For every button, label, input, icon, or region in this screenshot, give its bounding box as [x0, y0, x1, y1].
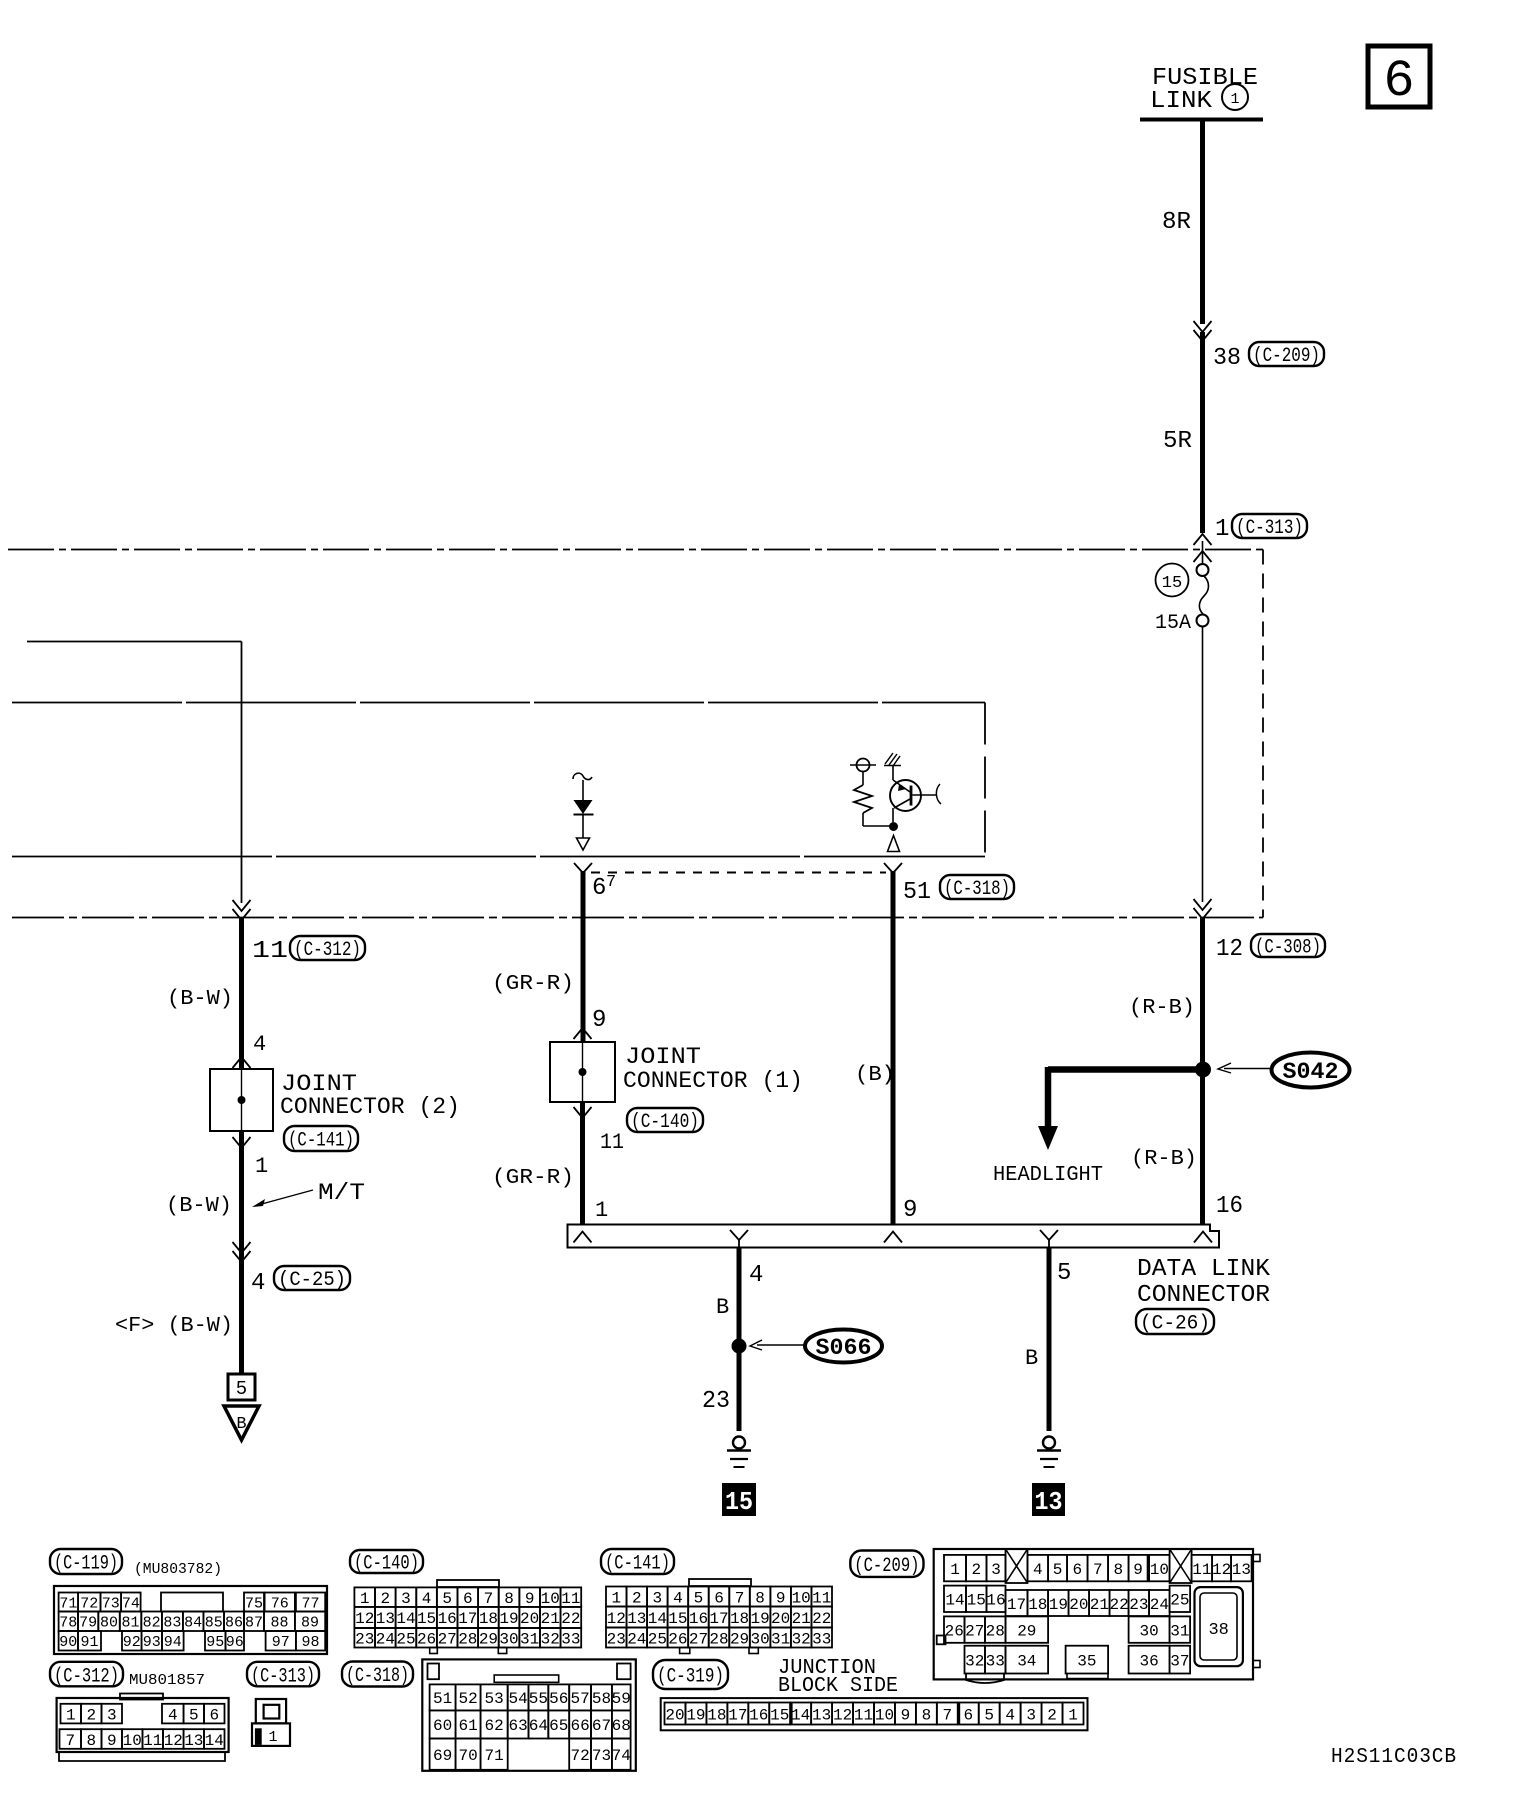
svg-text:25: 25 — [648, 1630, 667, 1648]
svg-text:6: 6 — [463, 1590, 473, 1608]
svg-text:87: 87 — [245, 1615, 263, 1632]
svg-text:5: 5 — [694, 1589, 704, 1607]
svg-text:80: 80 — [100, 1615, 118, 1632]
svg-text:76: 76 — [271, 1595, 289, 1612]
svg-text:13: 13 — [1232, 1561, 1251, 1579]
svg-text:17: 17 — [709, 1610, 728, 1628]
svg-text:3: 3 — [107, 1706, 117, 1724]
svg-text:18: 18 — [707, 1706, 726, 1724]
svg-text:12: 12 — [164, 1732, 183, 1750]
svg-text:68: 68 — [612, 1717, 631, 1735]
svg-text:13: 13 — [376, 1610, 395, 1628]
svg-text:6: 6 — [1383, 52, 1414, 111]
svg-text:21: 21 — [792, 1610, 811, 1628]
svg-text:4: 4 — [251, 1270, 265, 1297]
svg-text:(C-140): (C-140) — [631, 1111, 699, 1134]
svg-text:30: 30 — [499, 1631, 518, 1649]
svg-text:15: 15 — [668, 1610, 687, 1628]
svg-text:13: 13 — [1035, 1487, 1063, 1517]
svg-text:22: 22 — [1109, 1596, 1128, 1614]
svg-text:17: 17 — [1007, 1596, 1026, 1614]
svg-text:2: 2 — [381, 1590, 391, 1608]
svg-text:(C-25): (C-25) — [278, 1269, 346, 1292]
svg-text:5: 5 — [984, 1706, 994, 1724]
svg-text:75: 75 — [245, 1595, 263, 1612]
svg-text:(GR-R): (GR-R) — [492, 1167, 574, 1190]
svg-text:3: 3 — [991, 1561, 1001, 1579]
svg-text:1: 1 — [1068, 1706, 1078, 1724]
svg-text:S042: S042 — [1283, 1059, 1339, 1085]
svg-text:24: 24 — [376, 1631, 395, 1649]
svg-text:8: 8 — [755, 1589, 765, 1607]
svg-text:32: 32 — [965, 1652, 984, 1670]
svg-text:28: 28 — [709, 1630, 728, 1648]
svg-text:59: 59 — [612, 1690, 631, 1708]
svg-text:58: 58 — [592, 1690, 611, 1708]
svg-text:16: 16 — [749, 1706, 768, 1724]
svg-text:32: 32 — [541, 1631, 560, 1649]
svg-text:69: 69 — [433, 1747, 452, 1765]
svg-text:7: 7 — [735, 1589, 745, 1607]
svg-text:83: 83 — [163, 1615, 181, 1632]
svg-text:34: 34 — [1017, 1652, 1036, 1670]
svg-text:5: 5 — [1057, 1260, 1071, 1287]
svg-text:6: 6 — [1073, 1561, 1083, 1579]
svg-text:15A: 15A — [1155, 612, 1191, 635]
svg-text:73: 73 — [102, 1595, 120, 1612]
svg-text:5: 5 — [236, 1378, 247, 1400]
svg-text:63: 63 — [508, 1717, 527, 1735]
svg-text:10: 10 — [123, 1732, 142, 1750]
svg-text:12: 12 — [833, 1706, 852, 1724]
svg-text:17: 17 — [728, 1706, 747, 1724]
svg-text:26: 26 — [668, 1630, 687, 1648]
svg-text:2: 2 — [86, 1706, 96, 1724]
svg-text:MU801857: MU801857 — [129, 1672, 205, 1689]
svg-text:28: 28 — [986, 1622, 1005, 1640]
svg-text:22: 22 — [561, 1610, 580, 1628]
svg-text:9: 9 — [107, 1732, 117, 1750]
svg-text:71: 71 — [485, 1747, 504, 1765]
svg-text:20: 20 — [1069, 1596, 1088, 1614]
svg-text:8: 8 — [504, 1590, 514, 1608]
svg-text:94: 94 — [164, 1634, 182, 1651]
svg-text:9: 9 — [592, 1007, 606, 1034]
svg-text:24: 24 — [1150, 1596, 1169, 1614]
svg-text:70: 70 — [458, 1747, 477, 1765]
svg-text:(C-308): (C-308) — [1255, 937, 1321, 960]
svg-text:67: 67 — [592, 1717, 611, 1735]
svg-text:S066: S066 — [816, 1335, 872, 1361]
svg-text:BLOCK SIDE: BLOCK SIDE — [778, 1675, 898, 1698]
svg-text:B: B — [716, 1295, 729, 1320]
svg-text:(GR-R): (GR-R) — [492, 973, 574, 996]
svg-text:52: 52 — [458, 1690, 477, 1708]
svg-text:21: 21 — [1090, 1596, 1109, 1614]
svg-text:2: 2 — [1047, 1706, 1057, 1724]
svg-text:9: 9 — [776, 1589, 786, 1607]
svg-text:(B-W): (B-W) — [166, 1195, 232, 1218]
svg-text:20: 20 — [520, 1610, 539, 1628]
svg-text:(C-119): (C-119) — [54, 1553, 118, 1576]
svg-text:19: 19 — [686, 1706, 705, 1724]
svg-text:30: 30 — [750, 1630, 769, 1648]
svg-text:1: 1 — [950, 1561, 960, 1579]
svg-text:(C-318): (C-318) — [944, 878, 1010, 901]
svg-text:1: 1 — [360, 1590, 370, 1608]
svg-text:(C-318): (C-318) — [346, 1665, 409, 1688]
svg-text:CONNECTOR: CONNECTOR — [1137, 1282, 1270, 1309]
svg-text:B: B — [1025, 1346, 1038, 1371]
svg-text:(C-313): (C-313) — [251, 1665, 315, 1688]
svg-text:7: 7 — [484, 1590, 494, 1608]
svg-text:93: 93 — [143, 1634, 161, 1651]
svg-text:16: 16 — [986, 1592, 1005, 1610]
svg-text:17: 17 — [458, 1610, 477, 1628]
svg-text:(C-141): (C-141) — [605, 1553, 670, 1576]
svg-text:19: 19 — [750, 1610, 769, 1628]
svg-text:88: 88 — [270, 1615, 288, 1632]
svg-text:6: 6 — [963, 1706, 973, 1724]
svg-text:72: 72 — [570, 1747, 589, 1765]
svg-text:5: 5 — [189, 1706, 199, 1724]
svg-text:H2S11C03CB: H2S11C03CB — [1331, 1746, 1457, 1769]
svg-text:12: 12 — [1216, 936, 1243, 963]
svg-text:22: 22 — [812, 1610, 831, 1628]
svg-text:(B-W): (B-W) — [167, 988, 233, 1011]
svg-text:11: 11 — [812, 1589, 831, 1607]
svg-text:64: 64 — [529, 1717, 548, 1735]
svg-text:3: 3 — [653, 1589, 663, 1607]
svg-text:23: 23 — [1129, 1596, 1148, 1614]
svg-text:57: 57 — [570, 1690, 589, 1708]
svg-text:95: 95 — [206, 1634, 224, 1651]
svg-text:9: 9 — [1133, 1561, 1143, 1579]
svg-text:38: 38 — [1213, 345, 1241, 372]
svg-text:36: 36 — [1139, 1652, 1158, 1670]
svg-text:19: 19 — [1049, 1596, 1068, 1614]
svg-text:26: 26 — [417, 1631, 436, 1649]
svg-text:51: 51 — [433, 1690, 452, 1708]
svg-text:25: 25 — [1170, 1592, 1189, 1610]
svg-text:18: 18 — [730, 1610, 749, 1628]
svg-text:18: 18 — [1028, 1596, 1047, 1614]
svg-text:7: 7 — [1093, 1561, 1103, 1579]
svg-text:4: 4 — [1005, 1706, 1015, 1724]
svg-text:82: 82 — [143, 1615, 161, 1632]
svg-text:6: 6 — [592, 875, 606, 902]
svg-text:12: 12 — [607, 1610, 626, 1628]
svg-text:3: 3 — [1026, 1706, 1036, 1724]
svg-text:3: 3 — [401, 1590, 411, 1608]
svg-text:29: 29 — [730, 1630, 749, 1648]
svg-text:13: 13 — [184, 1732, 203, 1750]
svg-text:(MU803782): (MU803782) — [134, 1561, 222, 1578]
svg-text:<F> (B-W): <F> (B-W) — [115, 1315, 233, 1338]
svg-text:10: 10 — [541, 1590, 560, 1608]
svg-text:16: 16 — [1216, 1193, 1243, 1220]
svg-text:(C-313): (C-313) — [1236, 517, 1303, 540]
svg-text:55: 55 — [529, 1690, 548, 1708]
svg-text:24: 24 — [627, 1630, 646, 1648]
svg-text:11: 11 — [1192, 1561, 1211, 1579]
svg-text:11: 11 — [143, 1732, 162, 1750]
svg-text:16: 16 — [438, 1610, 457, 1628]
svg-text:(C-319): (C-319) — [657, 1666, 724, 1689]
svg-text:29: 29 — [1017, 1622, 1036, 1640]
svg-text:31: 31 — [520, 1631, 539, 1649]
svg-text:27: 27 — [965, 1622, 984, 1640]
svg-text:1: 1 — [66, 1706, 76, 1724]
svg-text:27: 27 — [438, 1631, 457, 1649]
svg-text:20: 20 — [665, 1706, 684, 1724]
svg-text:15: 15 — [725, 1487, 753, 1517]
svg-text:4: 4 — [1033, 1561, 1043, 1579]
svg-text:20: 20 — [771, 1610, 790, 1628]
svg-text:DATA LINK: DATA LINK — [1137, 1256, 1271, 1283]
svg-text:91: 91 — [80, 1634, 98, 1651]
svg-text:(C-209): (C-209) — [854, 1555, 919, 1578]
svg-text:5: 5 — [1053, 1561, 1063, 1579]
svg-text:73: 73 — [592, 1747, 611, 1765]
svg-text:8: 8 — [922, 1706, 932, 1724]
svg-text:15: 15 — [770, 1706, 789, 1724]
svg-text:71: 71 — [59, 1595, 77, 1612]
svg-text:14: 14 — [396, 1610, 415, 1628]
svg-text:12: 12 — [355, 1610, 374, 1628]
svg-text:85: 85 — [205, 1615, 223, 1632]
svg-text:38: 38 — [1208, 1621, 1228, 1640]
svg-text:10: 10 — [1150, 1561, 1169, 1579]
svg-text:30: 30 — [1139, 1622, 1158, 1640]
svg-text:(C-209): (C-209) — [1253, 345, 1320, 368]
svg-text:4: 4 — [253, 1032, 266, 1057]
svg-text:23: 23 — [355, 1631, 374, 1649]
svg-text:53: 53 — [485, 1690, 504, 1708]
svg-text:JOINT: JOINT — [625, 1044, 701, 1070]
svg-text:9: 9 — [901, 1706, 911, 1724]
svg-text:32: 32 — [792, 1630, 811, 1648]
svg-text:(C-140): (C-140) — [354, 1553, 419, 1576]
svg-text:89: 89 — [301, 1615, 319, 1632]
svg-text:7: 7 — [606, 873, 616, 892]
svg-text:14: 14 — [945, 1592, 964, 1610]
svg-text:18: 18 — [479, 1610, 498, 1628]
svg-text:7: 7 — [65, 1732, 75, 1750]
svg-text:15: 15 — [967, 1592, 986, 1610]
svg-text:62: 62 — [485, 1717, 504, 1735]
svg-text:13: 13 — [812, 1706, 831, 1724]
svg-text:4: 4 — [168, 1706, 178, 1724]
svg-text:10: 10 — [792, 1589, 811, 1607]
svg-text:1: 1 — [595, 1198, 608, 1223]
svg-text:79: 79 — [79, 1615, 97, 1632]
svg-text:(B): (B) — [855, 1064, 895, 1087]
svg-text:6: 6 — [714, 1589, 724, 1607]
svg-text:(R-B): (R-B) — [1129, 997, 1195, 1020]
svg-text:10: 10 — [875, 1706, 894, 1724]
svg-text:33: 33 — [986, 1652, 1005, 1670]
svg-text:23: 23 — [607, 1630, 626, 1648]
svg-text:92: 92 — [123, 1634, 141, 1651]
svg-text:66: 66 — [570, 1717, 589, 1735]
svg-text:(R-B): (R-B) — [1131, 1148, 1197, 1171]
svg-text:CONNECTOR (2): CONNECTOR (2) — [280, 1094, 460, 1120]
svg-text:1: 1 — [255, 1154, 268, 1179]
svg-text:(C-26): (C-26) — [1140, 1313, 1210, 1336]
svg-text:28: 28 — [458, 1631, 477, 1649]
svg-text:4: 4 — [673, 1589, 683, 1607]
svg-text:9: 9 — [525, 1590, 535, 1608]
svg-text:1: 1 — [1215, 516, 1229, 543]
svg-text:1: 1 — [1230, 91, 1239, 108]
svg-text:54: 54 — [508, 1690, 527, 1708]
svg-text:33: 33 — [561, 1631, 580, 1649]
svg-text:(C-312): (C-312) — [54, 1665, 119, 1688]
svg-text:35: 35 — [1077, 1652, 1096, 1670]
svg-text:15: 15 — [1162, 574, 1182, 593]
svg-text:78: 78 — [59, 1615, 77, 1632]
svg-text:2: 2 — [632, 1589, 642, 1607]
svg-text:27: 27 — [689, 1630, 708, 1648]
svg-text:33: 33 — [812, 1630, 831, 1648]
svg-text:7: 7 — [943, 1706, 953, 1724]
svg-text:98: 98 — [302, 1634, 320, 1651]
svg-text:5: 5 — [442, 1590, 452, 1608]
svg-text:16: 16 — [689, 1610, 708, 1628]
svg-text:31: 31 — [771, 1630, 790, 1648]
svg-text:25: 25 — [396, 1631, 415, 1649]
svg-text:6: 6 — [209, 1706, 219, 1724]
svg-text:56: 56 — [549, 1690, 568, 1708]
svg-text:23: 23 — [702, 1388, 730, 1415]
svg-text:60: 60 — [433, 1717, 452, 1735]
svg-text:11: 11 — [252, 938, 288, 965]
svg-text:72: 72 — [80, 1595, 98, 1612]
svg-text:86: 86 — [225, 1615, 243, 1632]
svg-text:1: 1 — [268, 1729, 277, 1746]
svg-text:B: B — [236, 1415, 246, 1434]
svg-text:CONNECTOR (1): CONNECTOR (1) — [623, 1068, 803, 1094]
svg-text:37: 37 — [1170, 1652, 1189, 1670]
svg-text:8: 8 — [1114, 1561, 1124, 1579]
svg-text:81: 81 — [122, 1615, 140, 1632]
svg-text:29: 29 — [479, 1631, 498, 1649]
svg-text:4: 4 — [422, 1590, 432, 1608]
svg-text:11: 11 — [561, 1590, 580, 1608]
svg-text:13: 13 — [627, 1610, 646, 1628]
svg-text:21: 21 — [541, 1610, 560, 1628]
svg-text:14: 14 — [205, 1732, 224, 1750]
svg-text:M/T: M/T — [318, 1180, 365, 1206]
svg-text:90: 90 — [59, 1634, 77, 1651]
svg-text:11: 11 — [854, 1706, 873, 1724]
svg-text:1: 1 — [611, 1589, 621, 1607]
svg-text:5R: 5R — [1163, 428, 1192, 455]
svg-text:14: 14 — [648, 1610, 667, 1628]
svg-text:8R: 8R — [1162, 209, 1191, 236]
svg-text:61: 61 — [458, 1717, 477, 1735]
svg-text:4: 4 — [749, 1262, 763, 1289]
svg-text:31: 31 — [1170, 1622, 1189, 1640]
svg-text:LINK: LINK — [1150, 88, 1213, 115]
svg-text:19: 19 — [499, 1610, 518, 1628]
svg-text:9: 9 — [903, 1197, 917, 1224]
svg-text:14: 14 — [791, 1706, 810, 1724]
svg-text:74: 74 — [122, 1595, 140, 1612]
svg-text:(C-312): (C-312) — [294, 939, 361, 962]
svg-text:11: 11 — [600, 1130, 624, 1155]
svg-text:HEADLIGHT: HEADLIGHT — [993, 1164, 1103, 1187]
svg-text:84: 84 — [184, 1615, 202, 1632]
svg-text:51: 51 — [903, 879, 931, 906]
svg-text:2: 2 — [971, 1561, 981, 1579]
svg-text:(C-141): (C-141) — [288, 1130, 354, 1153]
svg-text:15: 15 — [417, 1610, 436, 1628]
svg-text:96: 96 — [226, 1634, 244, 1651]
svg-text:97: 97 — [272, 1634, 290, 1651]
svg-text:74: 74 — [612, 1747, 631, 1765]
svg-text:26: 26 — [945, 1622, 964, 1640]
svg-text:65: 65 — [549, 1717, 568, 1735]
svg-text:77: 77 — [302, 1595, 320, 1612]
svg-text:8: 8 — [86, 1732, 96, 1750]
svg-text:12: 12 — [1212, 1561, 1231, 1579]
